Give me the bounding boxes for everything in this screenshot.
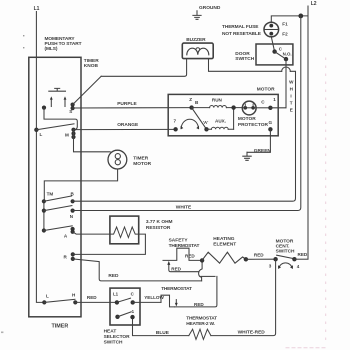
node door switch C [272, 49, 276, 53]
wire L2 rail down right side [307, 6, 309, 259]
wire heat selector lower blade [118, 312, 132, 317]
motor box [168, 94, 278, 135]
svg-text:RUN: RUN [212, 98, 223, 103]
svg-text:MOTOR: MOTOR [238, 116, 256, 122]
svg-text:RED: RED [171, 266, 181, 271]
svg-text:H: H [290, 87, 294, 92]
svg-text:KNOB: KNOB [84, 63, 99, 69]
svg-text:F1: F1 [282, 21, 288, 26]
svg-text:W: W [289, 80, 294, 85]
safety thermostat TS1 [163, 248, 202, 260]
node cent switch 4 [292, 257, 296, 261]
svg-text:SWITCH: SWITCH [104, 340, 123, 346]
svg-text:WHITE: WHITE [176, 205, 192, 211]
wire from left push contact down to M [44, 108, 77, 130]
resistor zigzag [110, 227, 139, 238]
svg-text:L: L [46, 293, 49, 298]
svg-text:L1: L1 [113, 291, 119, 296]
node run/aux junction [231, 105, 235, 109]
node L junction on L1 rail [34, 128, 38, 132]
svg-text:L2: L2 [311, 1, 317, 7]
wire PURPLE from S to motor Z [73, 107, 192, 109]
svg-text:RESISTOR: RESISTOR [146, 225, 171, 231]
wire from junction down to timer N [73, 16, 301, 211]
svg-text:N: N [70, 214, 74, 219]
node heat selector 1 [130, 315, 134, 319]
svg-text:1: 1 [273, 97, 276, 102]
arrow up right of push switch [64, 99, 66, 106]
wire protector to C terminal [256, 107, 270, 109]
resistor R1 3.77K box [110, 216, 139, 244]
svg-text:S: S [69, 109, 72, 114]
node heating element left junction [200, 258, 204, 262]
svg-text:RED: RED [194, 302, 204, 307]
wire BLUE from heater to heat selector 1 [133, 317, 189, 336]
wire RED cent 4 to L2 [294, 258, 308, 260]
svg-text:HEATING: HEATING [213, 236, 234, 242]
faint scan dots right edge [286, 58, 327, 348]
svg-text:THERMOSTAT: THERMOSTAT [161, 286, 192, 292]
node heating element right junction [244, 257, 248, 261]
heating element zigzag [202, 252, 246, 263]
node TM pivot dots [42, 199, 46, 203]
wire timer A to resistor [73, 232, 110, 234]
buzzer coil [187, 48, 209, 55]
svg-text:RED: RED [185, 254, 195, 259]
wire motor switch blade Z to A [192, 108, 207, 130]
node H contact [73, 300, 77, 304]
buzzer BZ [182, 43, 213, 59]
svg-text:4: 4 [297, 264, 300, 269]
node N contact [71, 209, 75, 213]
svg-text:SWITCH: SWITCH [235, 56, 254, 62]
wire RED heating element to cent switch 3 [246, 258, 276, 260]
svg-text:RED: RED [87, 295, 97, 300]
wire aux up to run junction [233, 108, 235, 130]
operating thermostat TS2 [161, 295, 175, 307]
node R contact dots [71, 252, 75, 256]
svg-text:RED: RED [254, 252, 264, 257]
arrow down at op thermostat [175, 300, 177, 304]
wire motor C to white [270, 107, 286, 109]
thermal fuse F [264, 22, 279, 37]
scan speck artifacts [1, 35, 24, 333]
svg-text:HEAT: HEAT [104, 329, 117, 335]
svg-text:CENT.: CENT. [276, 244, 290, 250]
svg-text:RED: RED [108, 273, 119, 279]
svg-text:ORANGE: ORANGE [117, 122, 139, 128]
svg-text:'A': 'A' [203, 120, 209, 125]
svg-text:H: H [72, 292, 76, 297]
motor protector MP [242, 101, 256, 115]
node motor 7 [173, 127, 177, 131]
svg-text:C: C [131, 291, 135, 296]
node A contact dots [71, 227, 75, 231]
wire jog junction to op thermostat branch [199, 260, 203, 281]
wire heat selector blade L1 [117, 298, 131, 302]
svg-text:TIMER: TIMER [133, 155, 148, 161]
wire GREEN from G to ground [247, 129, 270, 152]
node cent switch 3 [273, 257, 277, 261]
wire door switch blade C to NO [275, 52, 286, 60]
node heat selector L1 [115, 300, 119, 304]
wire from M down to timer motor [74, 137, 111, 152]
svg-text:3.77 K OHM: 3.77 K OHM [146, 219, 173, 225]
svg-text:WHITE-RED: WHITE-RED [238, 329, 266, 335]
svg-text:SAFETY: SAFETY [169, 238, 189, 244]
wire red drop from safety thermostat with arrow [169, 265, 199, 272]
wire wiper to N [44, 206, 72, 211]
wire YELLOW heat selector C to op thermostat [133, 301, 161, 303]
door switch box [256, 44, 293, 65]
svg-text:GREEN: GREEN [254, 148, 272, 154]
svg-text:A: A [64, 233, 68, 238]
wire cent switch blade [277, 255, 295, 259]
svg-text:MOTOR: MOTOR [276, 238, 294, 244]
svg-text:MOTOR: MOTOR [257, 87, 275, 93]
svg-text:T: T [290, 101, 293, 106]
wire wiper to A [44, 226, 72, 231]
wire cent 3 down to white-red [211, 259, 276, 335]
node motor C [268, 106, 272, 110]
svg-text:7: 7 [174, 118, 177, 123]
wire fuse to door switch C [271, 37, 274, 52]
svg-text:THERMAL FUSE: THERMAL FUSE [222, 24, 259, 30]
wire wiper TM to B [44, 196, 72, 201]
wire wiper L to M [36, 124, 74, 130]
svg-text:PROTECTOR: PROTECTOR [238, 122, 269, 128]
svg-text:(MLS): (MLS) [45, 46, 58, 52]
wire wiper L to H bottom [44, 299, 75, 302]
svg-text:MOTOR: MOTOR [133, 161, 151, 167]
svg-text:RED: RED [298, 252, 308, 257]
node door switch N.O. [284, 57, 288, 61]
svg-text:PURPLE: PURPLE [117, 101, 137, 107]
wire top feed from L2 to thermal fuse [271, 16, 308, 22]
svg-text:1: 1 [132, 309, 135, 314]
cent switch actuator arc [279, 263, 293, 268]
timer box [29, 57, 81, 317]
thermostat heater resistor [189, 329, 211, 339]
svg-text:ELEMENT: ELEMENT [213, 241, 236, 247]
svg-text:B: B [195, 100, 199, 105]
svg-text:3: 3 [269, 264, 272, 269]
ground green [243, 152, 251, 160]
svg-text:Z: Z [189, 97, 192, 102]
heat selector switch box [110, 288, 140, 325]
svg-text:GROUND: GROUND [199, 5, 221, 11]
node M contact dots [71, 128, 75, 132]
svg-text:L: L [40, 132, 43, 137]
node motor G [268, 127, 272, 131]
node motor Z [189, 105, 193, 109]
wire op thermostat lead to riser [175, 276, 217, 307]
svg-text:G: G [269, 120, 273, 125]
svg-text:R: R [64, 255, 68, 260]
node junction on L2 feed [298, 14, 303, 19]
svg-text:M: M [65, 132, 69, 137]
node S contact dots [71, 103, 75, 107]
wire timer motor return to TM bus [44, 169, 117, 201]
svg-text:SWITCH: SWITCH [276, 249, 295, 255]
wire L1 rail down left side into timer to bottom L contact [36, 12, 44, 303]
wire buzzer left leg to S diagonal [101, 59, 186, 77]
wire ORANGE from M to motor 7 [74, 128, 176, 130]
svg-text:HEATER-2 W.: HEATER-2 W. [186, 321, 214, 327]
wire RED from timer R down and right [73, 259, 202, 281]
svg-text:F2: F2 [282, 32, 288, 37]
svg-text:DOOR: DOOR [235, 51, 250, 57]
node L bottom contact [42, 300, 46, 304]
wire buzzer right leg to white crossover and down to timer B [209, 59, 282, 72]
arrow up left of push switch [50, 99, 52, 106]
wire diagonal from S up to buzzer feed [73, 76, 102, 104]
wire WHITE from N.O. down to motor 1 [285, 59, 287, 108]
push-to-start button bar [49, 88, 66, 91]
svg-text:TIMER: TIMER [52, 324, 69, 330]
wire resistor wrap-around to timer R [73, 234, 146, 254]
wire hop over white wire [282, 67, 291, 71]
svg-text:THERMOSTAT: THERMOSTAT [186, 315, 217, 321]
svg-text:B: B [71, 192, 75, 197]
svg-text:E: E [290, 108, 293, 113]
svg-text:SELECTOR: SELECTOR [104, 334, 131, 340]
svg-text:I: I [290, 94, 291, 99]
node heat selector C [131, 300, 135, 304]
contact dot left of push switch [42, 106, 46, 110]
svg-text:BLUE: BLUE [156, 330, 170, 336]
wire TM pivot bus [43, 201, 45, 230]
wire RED timer H to heat selector L1 [75, 301, 117, 303]
motor centrifugal arc 7 to A [181, 119, 198, 128]
node B contact [71, 199, 75, 203]
node heat selector lower left [115, 315, 119, 319]
svg-text:AUX.: AUX. [215, 118, 226, 123]
node motor A [204, 127, 208, 131]
svg-text:NOT RESETABLE: NOT RESETABLE [222, 31, 262, 37]
timer motor M1 [108, 150, 127, 169]
svg-text:C: C [261, 99, 265, 104]
svg-text:TM: TM [47, 192, 54, 197]
svg-text:N.O.: N.O. [283, 51, 292, 56]
